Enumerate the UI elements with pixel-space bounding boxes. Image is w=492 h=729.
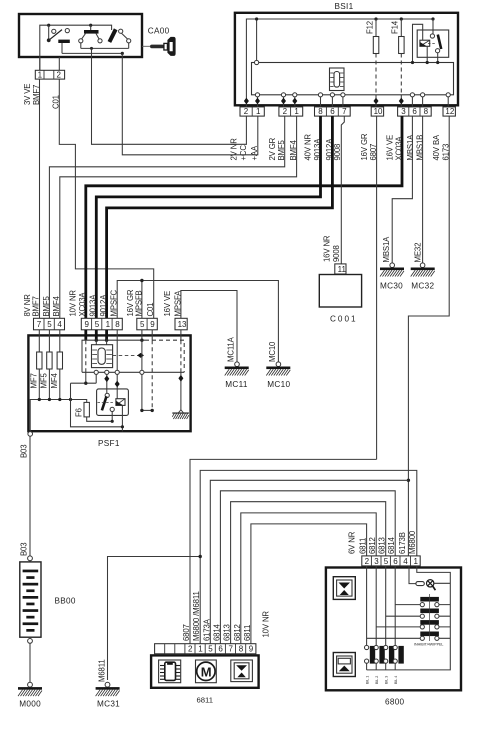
svg-text:6: 6 — [412, 107, 417, 116]
PSF1 pin 13 — [175, 318, 187, 330]
electronic module icon — [159, 660, 181, 683]
CA00 connector pin row — [35, 70, 64, 79]
svg-text:12: 12 — [445, 107, 454, 116]
switch bar BIL4 — [393, 645, 397, 649]
PSF1 supply bus — [30, 400, 86, 432]
svg-text:6813: 6813 — [378, 537, 387, 554]
wire battery to M000 — [29, 643, 31, 682]
wire BMF5: BSI1 to PSF1 pin5 — [49, 116, 284, 318]
svg-text:2: 2 — [57, 70, 62, 79]
CA00 box — [19, 14, 142, 57]
svg-text:BIL 1: BIL 1 — [365, 676, 369, 684]
wire 6173A junction — [407, 479, 410, 482]
BSI1 pin group 2V NR pins 2|1 — [240, 107, 264, 116]
dashed link icon to MPSFB — [113, 354, 139, 356]
svg-text:MF5: MF5 — [40, 373, 49, 389]
motor M icon — [196, 660, 217, 683]
svg-text:MC31: MC31 — [97, 699, 120, 708]
PSF1 box — [28, 335, 190, 431]
engine fusebox PSF1 — [23, 289, 190, 448]
svg-text:7: 7 — [342, 107, 347, 116]
window switch pack 6800 — [326, 530, 461, 706]
svg-text:16V GR: 16V GR — [360, 133, 369, 160]
contact ladder bar2 — [420, 609, 439, 614]
ignition switch CA00 — [19, 14, 176, 109]
wire MBS1A: BSI1 pin6 to MC30 — [392, 116, 412, 263]
svg-text:3: 3 — [401, 107, 406, 116]
svg-text:M6800 /M6811: M6800 /M6811 — [192, 591, 201, 641]
MPSFA dashed to internal ground — [180, 340, 182, 372]
switch contact 1 — [48, 25, 50, 39]
wire 6812 — [241, 513, 376, 644]
svg-text:9013A: 9013A — [89, 294, 98, 317]
battery BB00 top node — [28, 556, 33, 561]
svg-text:1: 1 — [294, 107, 299, 116]
6800 box — [326, 568, 461, 691]
svg-text:6813: 6813 — [223, 624, 232, 641]
relay coil — [116, 399, 125, 406]
CA00 internal bus 1 — [81, 47, 129, 49]
ground MC30 — [390, 263, 395, 268]
svg-text:6807: 6807 — [182, 624, 191, 641]
coil bottom lead — [426, 46, 428, 62]
PSF1 pin group 5|9 — [137, 318, 158, 330]
svg-text:6812: 6812 — [233, 624, 242, 641]
svg-text:11: 11 — [338, 265, 347, 274]
switch bar BIL3 — [384, 645, 388, 649]
svg-text:M6811: M6811 — [98, 659, 107, 682]
BSI1 pin group 16V VE pins 3|6|8 — [398, 107, 432, 116]
6811 box — [151, 655, 259, 687]
fuse F6 — [84, 402, 89, 417]
svg-text:16V NR: 16V NR — [323, 235, 332, 262]
switch contact 2 — [90, 25, 92, 30]
svg-text:3: 3 — [374, 557, 379, 566]
BSI1 top rail — [246, 19, 433, 107]
svg-text:M6800: M6800 — [408, 530, 417, 554]
svg-text:9008: 9008 — [332, 245, 341, 262]
6811 pin row — [155, 644, 256, 654]
svg-text:BSI1: BSI1 — [335, 2, 354, 11]
BSI1 pin group 40V NR pins 8|6|7 — [315, 107, 351, 116]
wire B03 from PSF1 to battery — [29, 436, 31, 562]
svg-text:9012A: 9012A — [99, 294, 108, 317]
svg-text:10V NR: 10V NR — [262, 611, 271, 638]
relay contact — [105, 393, 109, 397]
thick wire XC03A: BSI1 pin3 to PSF1 — [86, 116, 402, 318]
svg-text:INHIBIT/4WIPPEL: INHIBIT/4WIPPEL — [414, 643, 443, 647]
ground MC10 — [276, 362, 281, 367]
svg-text:B03: B03 — [20, 543, 29, 556]
wire BMF4: BSI1 to PSF1 pin4 — [60, 116, 297, 318]
svg-text:4: 4 — [57, 320, 62, 329]
svg-text:8: 8 — [424, 107, 429, 116]
connector C001 pin 11 — [335, 264, 346, 274]
svg-text:BMF7: BMF7 — [32, 296, 41, 316]
rail tap to module — [256, 19, 258, 60]
fuse F12 — [374, 17, 377, 20]
svg-text:9: 9 — [85, 320, 90, 329]
module outputs to pins: +AA — [255, 93, 259, 97]
svg-text:6: 6 — [393, 557, 398, 566]
svg-text:5: 5 — [47, 320, 52, 329]
svg-text:8: 8 — [318, 107, 323, 116]
ladder link line — [429, 594, 431, 641]
window motor unit 6811 — [151, 591, 270, 704]
svg-text:CA00: CA00 — [148, 27, 170, 36]
BSI1 internal connector icon — [330, 68, 345, 91]
pin stubs — [190, 654, 251, 656]
svg-text:10V NR: 10V NR — [69, 290, 78, 317]
fuse F14 — [400, 17, 403, 20]
svg-text:MC11A: MC11A — [227, 336, 236, 362]
svg-text:6173A: 6173A — [202, 618, 211, 641]
BSI1 inner module box — [252, 63, 454, 95]
svg-text:BIL 4: BIL 4 — [394, 676, 398, 684]
svg-text:2V NR: 2V NR — [230, 138, 239, 161]
PSF1 internal connector icon — [92, 345, 113, 368]
svg-text:F12: F12 — [365, 21, 374, 34]
svg-text:16V VE: 16V VE — [385, 135, 394, 161]
svg-text:6811: 6811 — [243, 625, 252, 641]
svg-text:MC32: MC32 — [411, 281, 434, 290]
svg-text:6800: 6800 — [385, 698, 405, 707]
ground M000 — [28, 682, 33, 687]
body control unit BSI1 — [230, 2, 458, 161]
svg-text:4: 4 — [403, 557, 408, 566]
svg-text:6811: 6811 — [359, 538, 368, 554]
svg-text:5: 5 — [384, 557, 389, 566]
svg-text:B03: B03 — [20, 445, 29, 458]
junction on rail — [47, 24, 50, 27]
wire 6814 — [220, 491, 395, 644]
wire MBS1B: BSI1 pin8 to MC32 — [422, 116, 424, 263]
pin wires into 6800 — [367, 566, 396, 645]
switch bar BIL1 — [365, 645, 369, 649]
battery bottom node — [28, 639, 33, 644]
svg-text:9: 9 — [150, 320, 155, 329]
wire 6811 — [251, 524, 367, 644]
B03 exit node — [28, 432, 33, 437]
svg-text:40V NR: 40V NR — [303, 134, 312, 161]
switch bar BIL2 — [374, 645, 378, 649]
BSI1 pin group 2V GR pins 2|1 — [279, 107, 303, 116]
svg-text:BIL 3: BIL 3 — [384, 676, 388, 684]
svg-text:13: 13 — [178, 320, 187, 329]
svg-text:2: 2 — [283, 107, 288, 116]
wire 6173: BSI1 pin12 down — [408, 116, 449, 556]
ground MC11 — [235, 362, 240, 367]
coil top lead — [413, 24, 423, 62]
fuse MF4 — [57, 352, 62, 369]
thick wire 9012A: BSI1 pin6 to PSF1 — [107, 116, 333, 318]
svg-text:MC10: MC10 — [267, 380, 290, 389]
BSI1 pin 12 — [443, 107, 455, 116]
XC03A dashed through box — [85, 340, 87, 372]
svg-text:1: 1 — [106, 320, 111, 329]
BSI1 box — [235, 13, 458, 106]
wire +CC: BSI1 pin2 to CA00 — [92, 57, 247, 144]
lamp symbol — [416, 582, 424, 586]
svg-text:2: 2 — [365, 557, 370, 566]
relay in BSI1 — [417, 30, 449, 57]
svg-text:3V VE: 3V VE — [23, 84, 32, 105]
svg-text:+CC: +CC — [239, 145, 248, 161]
svg-text:BMF4: BMF4 — [52, 295, 61, 316]
svg-text:C001: C001 — [330, 315, 358, 324]
PSF1 pin group 9|5|1|8 — [81, 318, 122, 330]
svg-text:C01: C01 — [146, 303, 155, 317]
svg-text:7: 7 — [229, 645, 234, 654]
auto switch icon bottom-left — [333, 653, 355, 677]
key icon — [142, 45, 150, 47]
PSF1 dashed internal box — [82, 340, 145, 372]
svg-text:10: 10 — [374, 107, 383, 116]
svg-text:7: 7 — [37, 320, 42, 329]
svg-text:1: 1 — [414, 557, 419, 566]
9013A 9012A entries — [95, 339, 98, 342]
svg-text:8: 8 — [239, 645, 244, 654]
svg-text:MBS1A: MBS1A — [406, 134, 415, 161]
svg-text:6173B: 6173B — [398, 532, 407, 554]
wire MPSFA to MC11 — [181, 291, 237, 363]
svg-text:MF4: MF4 — [50, 373, 59, 389]
wire 6807: BSI1 pin10 down — [376, 116, 378, 459]
wire M6800/M6811 — [200, 470, 417, 643]
MPSFC through box to coil — [116, 340, 118, 370]
svg-text:ME32: ME32 — [414, 243, 423, 263]
wire pin2 stub — [58, 57, 60, 70]
svg-text:1: 1 — [38, 70, 43, 79]
connector C001 box — [319, 275, 361, 308]
contact ladder bar1 — [420, 597, 439, 602]
coil return — [121, 405, 123, 431]
wire MPSFC/MPSFB to MC10 — [117, 281, 278, 363]
svg-text:6: 6 — [330, 107, 335, 116]
svg-text:6V NR: 6V NR — [348, 531, 357, 554]
PSF1 pin group 7|5|4 — [34, 318, 65, 330]
svg-text:6: 6 — [218, 645, 223, 654]
icon output to relay contact — [105, 370, 109, 374]
wire 6813 — [231, 502, 386, 644]
svg-text:1: 1 — [256, 107, 261, 116]
wire BMF7: CA00 pin1 to PSF1 pin7 — [39, 79, 41, 318]
svg-text:16V VE: 16V VE — [163, 291, 172, 317]
relay coil — [420, 40, 430, 46]
svg-text:6812: 6812 — [368, 537, 377, 554]
BSI1 pin 10 — [371, 107, 383, 116]
svg-text:MC30: MC30 — [380, 281, 403, 290]
svg-text:F6: F6 — [75, 408, 84, 417]
svg-text:BMF5: BMF5 — [42, 295, 51, 316]
svg-text:6814: 6814 — [387, 536, 396, 554]
svg-text:MC10: MC10 — [268, 341, 277, 362]
svg-text:XC03A: XC03A — [78, 292, 87, 317]
switch contact 3 — [109, 29, 115, 42]
svg-text:6814: 6814 — [212, 623, 221, 641]
svg-text:PSF1: PSF1 — [98, 439, 120, 448]
svg-text:9: 9 — [249, 645, 254, 654]
ground MC32 — [420, 263, 425, 268]
module outputs MBS1A MBS1B 6173 — [410, 93, 414, 97]
svg-text:F14: F14 — [391, 20, 400, 34]
PSF1 internal ground — [178, 410, 183, 413]
svg-text:1: 1 — [198, 645, 203, 654]
svg-text:M: M — [201, 664, 212, 679]
wire pin1 stub — [39, 57, 41, 70]
svg-text:MC11: MC11 — [225, 380, 248, 389]
svg-text:MF7: MF7 — [29, 373, 38, 388]
svg-text:M000: M000 — [19, 699, 41, 708]
svg-text:2: 2 — [188, 645, 193, 654]
MPSFB C01 junction — [142, 409, 152, 411]
svg-text:BIL 2: BIL 2 — [375, 676, 379, 684]
CA00 internal bus 2 — [62, 52, 122, 54]
XC03A junction to fuse bus and icon — [71, 382, 97, 384]
wire M6811 to MC31 — [108, 557, 201, 681]
svg-text:5: 5 — [208, 645, 213, 654]
svg-text:9008: 9008 — [333, 144, 342, 161]
svg-text:5: 5 — [140, 320, 145, 329]
MPSFB into box — [140, 339, 143, 342]
wire tap to +CC — [91, 48, 93, 57]
svg-text:8: 8 — [115, 320, 120, 329]
PSF1 relay box — [97, 389, 129, 416]
rocker switch icon — [231, 660, 253, 682]
rocker icon top-left — [333, 577, 355, 600]
svg-text:40V BA: 40V BA — [432, 134, 441, 160]
wire 9008: BSI1 pin7 to C001 — [341, 116, 344, 264]
module outputs 9013A 9012A 9008 — [318, 93, 322, 97]
svg-text:6811: 6811 — [197, 696, 214, 705]
svg-text:2: 2 — [244, 107, 249, 116]
battery BB00 — [20, 562, 41, 637]
F6 to contact — [87, 412, 113, 422]
svg-text:2V GR: 2V GR — [268, 137, 277, 160]
relay contact feed — [431, 17, 434, 20]
wire tap to +AA — [121, 53, 123, 57]
C01 dashed through box — [151, 340, 153, 410]
thick wire 9013A: BSI1 pin8 to PSF1 — [96, 116, 320, 318]
6800 pin row — [362, 556, 420, 566]
contact ladder bar4 — [420, 632, 439, 637]
module outputs BMF5 BMF4 — [281, 93, 285, 97]
svg-text:5: 5 — [95, 320, 100, 329]
CA00 internal top rail — [40, 25, 112, 70]
ground MC31 — [105, 682, 110, 687]
wire C01: CA00 pin2 to PSF1 pin9 — [59, 79, 153, 318]
wire 6807 to 6811 pin2 — [190, 459, 377, 643]
svg-text:MBS1A: MBS1A — [382, 236, 391, 263]
wire +AA: BSI1 pin1 to CA00 — [122, 57, 257, 155]
fuse MF5 — [47, 352, 52, 369]
contact ladder bar3 — [420, 620, 439, 625]
pin stubs into PSF1 — [39, 330, 60, 352]
fuse MF7 — [37, 352, 42, 369]
svg-text:BB00: BB00 — [55, 596, 76, 605]
